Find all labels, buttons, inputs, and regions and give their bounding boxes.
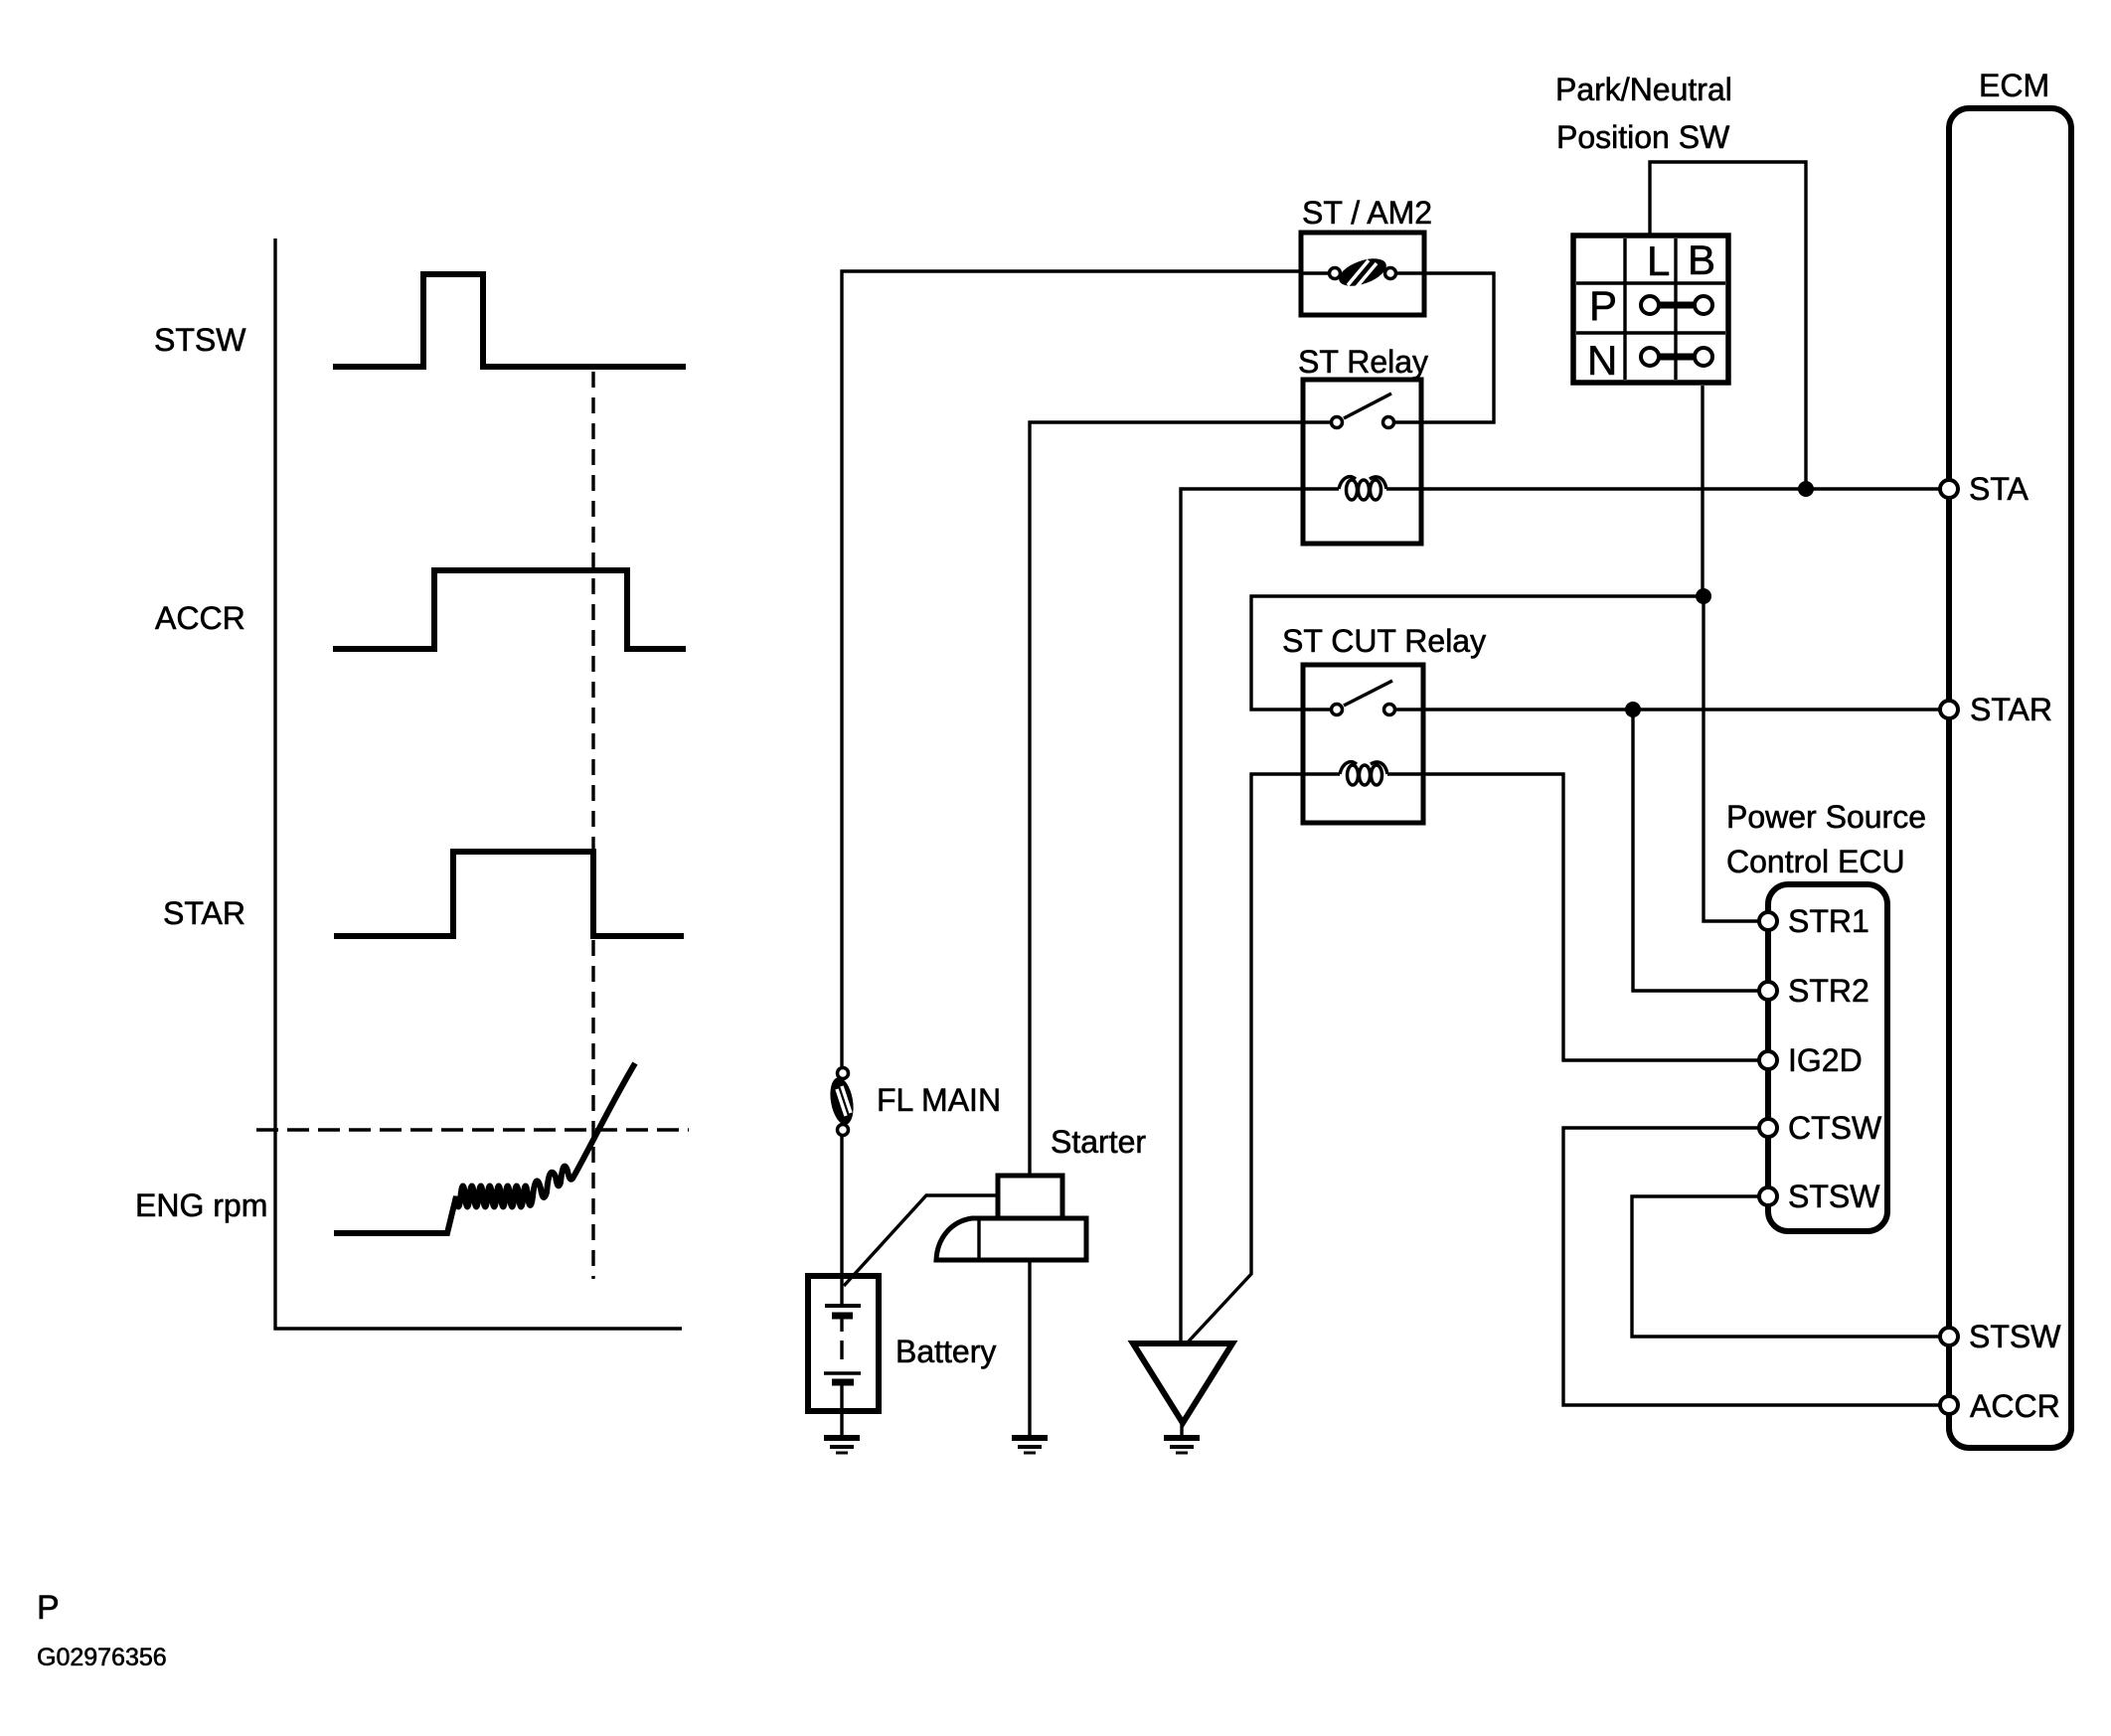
wire ST CUT switch to ECM STAR [1423,708,1941,710]
svg-text:Position SW: Position SW [1556,119,1730,155]
starter motor body [936,1218,1086,1260]
wire junction to STR2 [1633,710,1760,991]
svg-text:Battery: Battery [895,1334,996,1369]
wire ST Relay coil to ECM STA [1421,487,1941,490]
svg-text:ST / AM2: ST / AM2 [1302,195,1432,231]
svg-text:B: B [1688,237,1715,283]
svg-text:ENG rpm: ENG rpm [135,1187,267,1223]
svg-text:STAR: STAR [1970,692,2052,727]
wire P/N top loop to STA line [1650,162,1806,489]
svg-text:L: L [1647,237,1670,284]
svg-text:STSW: STSW [1788,1179,1880,1214]
pin STSW (ECM) [1940,1328,1958,1345]
wire battery to ground [840,1411,843,1435]
wire battery to ST/AM2 (vertical main feed) [842,271,1301,1066]
ST Relay switch contact [1303,394,1421,428]
svg-text:STR1: STR1 [1788,903,1869,939]
wire P/N bottom to STR1 [1703,386,1760,921]
vertical dashed timing line [591,372,594,1279]
svg-text:Control ECU: Control ECU [1726,844,1905,879]
wire ST CUT coil to ground triangle [1185,774,1303,1345]
horizontal dashed rpm threshold line [256,1128,689,1131]
wire ST Relay switch to Starter [1030,422,1303,1176]
ST CUT Relay coil [1303,762,1423,785]
junction on STA line [1798,481,1814,497]
svg-text:ST Relay: ST Relay [1298,344,1428,380]
timing diagram axis [275,238,682,1329]
svg-text:G02976356: G02976356 [37,1644,167,1671]
wire CTSW to ECM ACCR [1563,1128,1941,1405]
wire P/N switch to ST CUT relay switch [1251,596,1704,710]
wire starter to ground [1028,1260,1031,1435]
junction P/N feed [1696,588,1711,604]
svg-text:P: P [1589,282,1617,329]
svg-text:Park/Neutral: Park/Neutral [1555,72,1732,107]
battery cells [824,1276,861,1411]
svg-text:Power Source: Power Source [1726,799,1926,835]
ECM box [1949,108,2071,1448]
pin STR1 [1759,912,1777,930]
N row contact [1656,354,1698,361]
P row contact [1656,302,1698,309]
svg-text:STSW: STSW [1969,1319,2061,1354]
pin IG2D [1759,1051,1777,1069]
ground triangle (ST relays) [1133,1343,1232,1423]
pin CTSW [1759,1119,1777,1137]
battery box [808,1276,879,1411]
svg-text:P: P [37,1589,60,1627]
pin STAR [1940,701,1958,718]
svg-text:ACCR: ACCR [155,600,245,636]
ENG rpm waveform [334,1063,635,1233]
svg-text:STAR: STAR [163,895,245,931]
junction on STAR line [1625,702,1641,717]
wire PSC STSW to ECM STSW [1632,1196,1941,1337]
svg-text:ST CUT Relay: ST CUT Relay [1282,623,1486,659]
ground (starter) [1012,1438,1048,1453]
fuse ST / AM2 element [1301,253,1424,292]
ST Relay coil [1303,477,1421,500]
wire ST/AM2 to ST Relay switch [1421,273,1494,422]
wire ST Relay coil to ground triangle [1181,489,1303,1345]
Power Source Control ECU box [1768,884,1887,1231]
svg-text:N: N [1587,337,1617,384]
pin ACCR [1940,1396,1958,1414]
wire battery plus to starter solenoid [844,1195,998,1286]
relay ST CUT Relay box [1303,665,1423,823]
svg-text:FL MAIN: FL MAIN [877,1082,1001,1118]
pin STR2 [1759,982,1777,1000]
pin STA [1940,480,1958,498]
svg-text:CTSW: CTSW [1788,1110,1882,1146]
svg-text:STA: STA [1969,471,2030,507]
ST CUT Relay switch contact [1303,681,1423,715]
fuse ST / AM2 box [1301,233,1424,315]
ACCR waveform [333,570,686,649]
pin STSW (Power Source Control ECU) [1759,1187,1777,1205]
STSW waveform [333,274,686,367]
ground (triangle) [1164,1438,1200,1453]
relay ST Relay box [1303,380,1421,544]
svg-text:IG2D: IG2D [1788,1042,1863,1078]
fusible link FL MAIN [827,1068,857,1277]
svg-text:Starter: Starter [1051,1124,1146,1160]
svg-text:STR2: STR2 [1788,973,1869,1009]
svg-text:STSW: STSW [154,322,246,358]
starter solenoid [998,1176,1062,1218]
ground (battery) [824,1438,860,1453]
STAR waveform [334,852,684,936]
wire ST CUT coil to IG2D [1423,774,1760,1060]
svg-text:ECM: ECM [1979,68,2049,103]
svg-text:ACCR: ACCR [1970,1388,2060,1424]
Park/Neutral Position SW box [1573,236,1728,384]
